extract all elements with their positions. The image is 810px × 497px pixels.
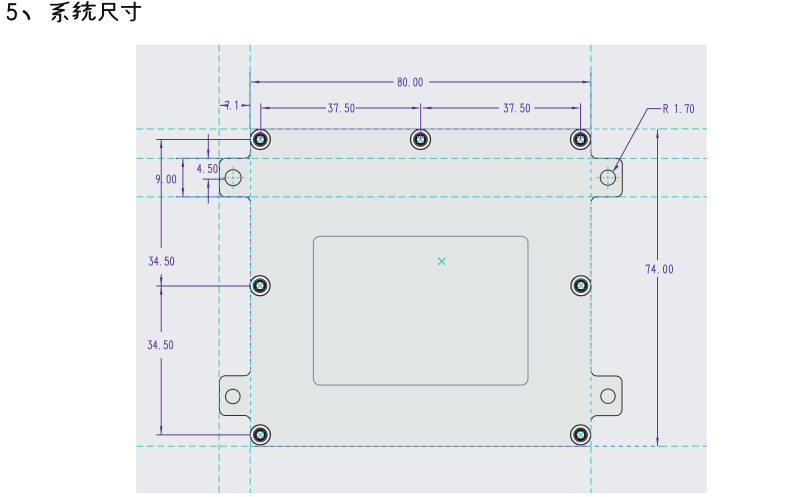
- dimension 4.50 (tab hole offset): [203, 134, 225, 203]
- tab hole bottom-left: [226, 389, 241, 404]
- teal centerline horizontal y=196.9: [136, 196, 707, 198]
- /t345A: [148, 341, 173, 349]
- teal centerline vertical x=219: [136, 45, 707, 493]
- screw hole mid-right: [571, 276, 591, 296]
- left chain dimension 34.50 / 34.50: [156, 140, 251, 435]
- char xi: [51, 2, 68, 4]
- screw hole bottom-left: [250, 425, 270, 445]
- display window: [313, 236, 528, 385]
- tab outline top-left: [220, 152, 251, 203]
- tab outline top-right: [591, 152, 622, 203]
- teal centerline horizontal y=158.4: [136, 157, 707, 159]
- dimension 9.00 (tab height): [182, 158, 185, 197]
- teal centerline horizontal y=446.35: [136, 445, 250, 447]
- tab hole bottom-right: [601, 389, 615, 403]
- tab outline bottom-right: [591, 370, 622, 422]
- plate body with four mounting tabs: [220, 129, 623, 446]
- ext for 9.00 dim at tab planes: [176, 157, 250, 159]
- screw hole top-center: [411, 130, 431, 150]
- CAD viewport panel: [136, 45, 707, 493]
- title: 5、系统尺寸 (drawn as paths, CJK not in Liberation): [8, 2, 141, 21]
- plate edges (violet): [251, 129, 661, 446]
- teal centerline vertical x=591: [590, 45, 592, 129]
- screw hole top-right: [571, 130, 591, 150]
- screw hole bottom-right: [571, 425, 591, 445]
- dimension 80.00: [251, 81, 591, 84]
- tab hole top-right: [600, 170, 615, 185]
- center mark x: [438, 258, 445, 265]
- teal centerline vertical x=250: [249, 45, 251, 129]
- tab outline bottom-left: [220, 370, 251, 422]
- screw hole top-left: [250, 130, 270, 150]
- char chi: [103, 4, 114, 10]
- screw hole mid-left: [250, 276, 270, 296]
- purple extension lines under teal (80.00): [176, 72, 591, 197]
- dimension 37.50 right: [423, 103, 581, 139]
- char tong: [74, 2, 80, 11]
- digit 5: [8, 4, 16, 19]
- leader R 1.70: [612, 109, 661, 173]
- char cun: [122, 6, 140, 8]
- ideographic comma: [24, 12, 29, 19]
- teal x marks on screw centers: [257, 136, 585, 438]
- dimension 37.50 left: [261, 103, 421, 139]
- dimension 7.1: [219, 104, 250, 107]
- teal centerline horizontal y=129: [136, 128, 250, 130]
- crosshair top-right tab hole: [596, 166, 619, 189]
- tab hole top-left: [225, 170, 241, 186]
- crosshair top-left tab hole: [222, 166, 245, 189]
- dimension 74.00 (right side): [656, 129, 659, 446]
